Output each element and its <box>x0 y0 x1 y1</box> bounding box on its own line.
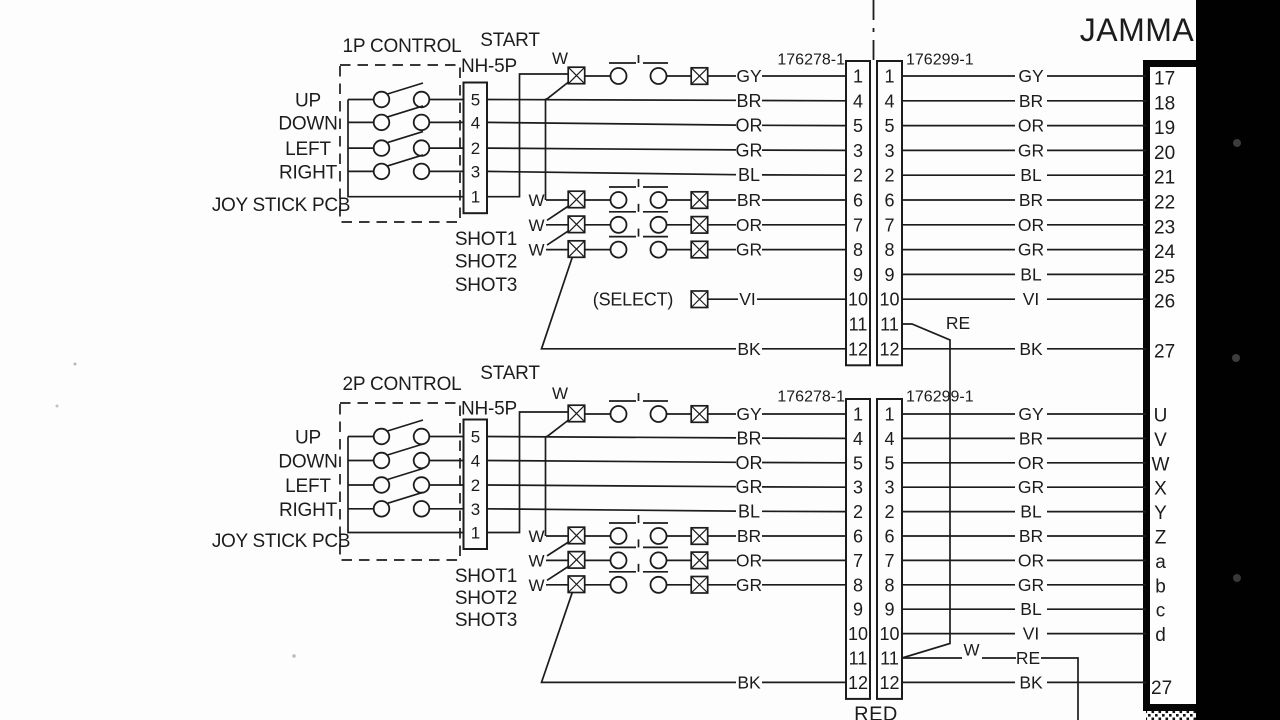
pushbutton SHOT2 (2P) with faston terminals <box>568 539 708 568</box>
svg-text:JOY STICK PCB: JOY STICK PCB <box>212 195 350 216</box>
svg-text:3: 3 <box>884 141 894 161</box>
svg-text:OR: OR <box>736 550 762 570</box>
svg-text:23: 23 <box>1154 217 1175 238</box>
svg-text:2: 2 <box>884 166 894 186</box>
svg-text:12: 12 <box>879 339 899 359</box>
wire GR row button to P-conn (2P) <box>708 584 736 586</box>
svg-text:Z: Z <box>1155 528 1167 549</box>
faint scan speck 3 <box>292 654 296 658</box>
svg-text:GR: GR <box>1018 575 1044 595</box>
wire OR row to JAMMA (row 2) <box>902 125 1015 127</box>
svg-text:c: c <box>1156 601 1166 622</box>
svg-text:5: 5 <box>853 116 863 136</box>
svg-text:176278-1: 176278-1 <box>777 389 845 406</box>
wire ground return SHOT3 to BK row (2P) <box>542 592 737 683</box>
svg-text:GR: GR <box>1018 240 1044 260</box>
svg-text:19: 19 <box>1154 118 1175 139</box>
wire W to terminal SHOT2 (1P) <box>546 224 569 226</box>
wire SELECT to P-conn pin10 / VI row (1P) <box>708 298 738 300</box>
wire BK row to JAMMA (row 11) <box>902 348 1015 350</box>
svg-text:W: W <box>528 241 544 260</box>
wire BL row to JAMMA (row 8) <box>902 608 1015 610</box>
JAMMA connector bottom key (stipple) <box>1146 711 1196 720</box>
connector R 176299-1 body <box>877 399 902 699</box>
connector NH-5P (1P) body <box>464 83 488 214</box>
svg-text:11: 11 <box>880 315 899 335</box>
svg-text:1: 1 <box>884 405 894 425</box>
svg-text:RE: RE <box>946 313 970 333</box>
svg-text:GR: GR <box>736 575 762 595</box>
switch RIGHT (2P) <box>348 492 429 516</box>
wire NH-5P pin3 / BL row to P-conn (2P) <box>487 509 736 511</box>
svg-text:4: 4 <box>471 113 480 132</box>
wire ground return SHOT3 to BK row (1P) <box>542 257 737 349</box>
svg-text:BL: BL <box>1020 599 1042 619</box>
wire OR row to JAMMA (row 6) <box>902 224 1015 226</box>
wire ground link SHOT2-SHOT3 (1P) <box>547 231 569 245</box>
wire NH-5P pin5 / BR row to P-conn (1P) <box>487 99 736 102</box>
svg-text:22: 22 <box>1154 193 1175 214</box>
connector R 176299-1 body <box>877 61 902 365</box>
svg-text:W: W <box>528 527 544 546</box>
wire switch LEFT to NH-5P (1P) <box>429 147 464 149</box>
svg-text:BL: BL <box>1020 264 1042 284</box>
wire switch DOWN to NH-5P (1P) <box>429 121 464 123</box>
wire VI row to JAMMA (row 9) <box>902 298 1015 300</box>
connector P 176278-1 pin numbers <box>848 405 868 693</box>
svg-text:GR: GR <box>736 140 763 160</box>
svg-text:START: START <box>480 30 540 51</box>
switch LEFT (2P) <box>348 469 429 493</box>
svg-text:25: 25 <box>1154 267 1175 288</box>
svg-text:7: 7 <box>853 551 863 571</box>
wire BR row to JAMMA (row 1) <box>902 100 1015 102</box>
svg-text:GY: GY <box>1018 66 1044 86</box>
switch UP (2P) <box>348 420 429 444</box>
pushbutton START (1P) with faston terminals <box>568 55 708 84</box>
svg-text:OR: OR <box>736 215 762 235</box>
2P joystick PCB enclosure (dashed box) <box>340 403 460 560</box>
wire W to terminal SHOT2 (2P) <box>546 559 569 561</box>
scan artifact dot 2 <box>1232 354 1240 362</box>
switch LEFT (1P) <box>348 132 429 156</box>
wire ground link SHOT1-SHOT2 (1P) <box>547 206 569 220</box>
svg-text:(SELECT): (SELECT) <box>593 290 673 310</box>
wire GY row button to P-conn (1P) <box>708 75 736 77</box>
svg-text:9: 9 <box>884 600 894 620</box>
svg-text:JOY STICK PCB: JOY STICK PCB <box>212 531 350 552</box>
wire RE link: upper pin11 to lower pin11 <box>902 324 950 658</box>
svg-text:10: 10 <box>848 624 868 644</box>
connector P 176278-1 body <box>846 399 870 699</box>
svg-text:2P CONTROL: 2P CONTROL <box>342 374 461 395</box>
svg-text:OR: OR <box>1018 116 1044 136</box>
svg-text:10: 10 <box>848 290 868 310</box>
svg-text:BK: BK <box>1019 339 1043 359</box>
svg-text:OR: OR <box>1018 215 1044 235</box>
svg-text:7: 7 <box>853 215 863 235</box>
wire NH-5P pin1 ground feed to START (2P) <box>487 412 569 533</box>
wire NH-5P pin2 / GR row to P-conn (2P) <box>487 485 736 487</box>
wire ground chain START to shots (2P) <box>546 420 569 536</box>
wire switch RIGHT to NH-5P (1P) <box>429 170 464 172</box>
svg-text:9: 9 <box>884 265 894 285</box>
connector NH-5P (2P) pin numbers <box>471 428 480 543</box>
svg-text:8: 8 <box>853 240 863 260</box>
svg-text:9: 9 <box>853 265 863 285</box>
svg-text:4: 4 <box>853 91 863 111</box>
wire BR row button to P-conn (1P) <box>708 199 736 201</box>
svg-text:20: 20 <box>1154 143 1175 164</box>
pushbutton SHOT3 (1P) with faston terminals <box>568 229 708 258</box>
svg-text:176278-1: 176278-1 <box>777 52 845 69</box>
wire BL row to JAMMA (row 8) <box>902 273 1015 275</box>
svg-text:VI: VI <box>1023 624 1040 644</box>
svg-text:SHOT3: SHOT3 <box>455 275 517 296</box>
wire W to terminal SHOT3 (2P) <box>546 584 569 586</box>
svg-text:9: 9 <box>853 600 863 620</box>
connector P 176278-1 body <box>846 61 870 365</box>
wire RE to drop corner <box>1041 658 1078 720</box>
wire NH-5P pin1 ground feed to START (1P) <box>487 74 569 197</box>
svg-text:11: 11 <box>880 649 899 669</box>
svg-text:GR: GR <box>1018 477 1044 497</box>
svg-text:BK: BK <box>737 339 761 359</box>
svg-text:5: 5 <box>471 428 480 447</box>
wire ground chain START to shots (1P) <box>546 82 569 200</box>
svg-text:2: 2 <box>884 502 894 522</box>
svg-text:2: 2 <box>853 502 863 522</box>
svg-text:W: W <box>528 191 544 210</box>
pushbutton SHOT2 (1P) with faston terminals <box>568 204 708 233</box>
faston terminal SELECT (1P) <box>691 291 708 308</box>
svg-text:SHOT2: SHOT2 <box>455 252 517 273</box>
svg-text:12: 12 <box>848 339 868 359</box>
wire NH-5P pin2 / GR row to P-conn (1P) <box>487 148 736 150</box>
svg-text:W: W <box>552 49 568 68</box>
wire switch LEFT to NH-5P (2P) <box>429 484 464 486</box>
wire VI row to JAMMA (row 9) <box>902 633 1015 635</box>
wire 1P joystick common bus <box>348 100 464 197</box>
wire GR row to JAMMA (row 7) <box>902 584 1015 586</box>
svg-text:4: 4 <box>884 429 894 449</box>
svg-text:6: 6 <box>853 527 863 547</box>
wire 2P pin11 W/RE to video ground drop <box>902 657 962 659</box>
svg-text:3: 3 <box>853 141 863 161</box>
svg-text:4: 4 <box>884 91 894 111</box>
svg-text:LEFT: LEFT <box>285 476 331 497</box>
svg-text:27: 27 <box>1154 341 1175 362</box>
wire GR row button to P-conn (1P) <box>708 249 736 251</box>
svg-text:SHOT2: SHOT2 <box>455 588 517 609</box>
wire GY row to JAMMA (row 0) <box>902 413 1015 415</box>
switch DOWN (1P) <box>348 106 429 130</box>
wire ground link SHOT2-SHOT3 (2P) <box>547 566 569 580</box>
wire W to terminal SHOT1 (2P) <box>546 535 569 537</box>
connector R 176299-1 pin numbers <box>879 405 899 693</box>
svg-text:U: U <box>1154 406 1168 427</box>
scan artifact dot 1 <box>1233 139 1241 147</box>
svg-text:8: 8 <box>884 575 894 595</box>
svg-text:1: 1 <box>853 67 863 87</box>
svg-text:X: X <box>1154 479 1167 500</box>
svg-text:5: 5 <box>884 453 894 473</box>
svg-text:JAMMA: JAMMA <box>1080 12 1195 48</box>
svg-text:8: 8 <box>853 575 863 595</box>
svg-text:1: 1 <box>884 67 894 87</box>
wire OR row to JAMMA (row 6) <box>902 559 1015 561</box>
svg-text:NH-5P: NH-5P <box>461 399 517 420</box>
svg-text:2: 2 <box>471 139 480 158</box>
svg-text:UP: UP <box>295 91 321 112</box>
wire NH-5P pin4 / OR row to P-conn (2P) <box>487 461 736 463</box>
svg-text:11: 11 <box>849 649 868 669</box>
svg-text:5: 5 <box>853 453 863 473</box>
svg-text:3: 3 <box>471 500 480 519</box>
svg-text:5: 5 <box>884 116 894 136</box>
wire GR row to JAMMA (row 3) <box>902 149 1015 151</box>
svg-text:GR: GR <box>1018 140 1044 160</box>
svg-text:BL: BL <box>738 502 760 522</box>
svg-text:BL: BL <box>1020 165 1042 185</box>
svg-text:W: W <box>528 551 544 570</box>
svg-text:VI: VI <box>739 289 756 309</box>
wire switch RIGHT to NH-5P (2P) <box>429 508 464 510</box>
svg-text:12: 12 <box>848 673 868 693</box>
wire BR row button to P-conn (2P) <box>708 535 736 537</box>
faint scan speck 1 <box>74 363 77 366</box>
wire BL row to JAMMA (row 4) <box>902 174 1015 176</box>
svg-text:BR: BR <box>736 91 761 111</box>
svg-text:BR: BR <box>1019 526 1043 546</box>
svg-text:BR: BR <box>1019 190 1043 210</box>
wire OR row button to P-conn (2P) <box>708 559 736 561</box>
wire OR row to JAMMA (row 2) <box>902 462 1015 464</box>
svg-text:1: 1 <box>853 405 863 425</box>
wire W to terminal SHOT3 (1P) <box>546 249 569 251</box>
wire GR row to JAMMA (row 7) <box>902 249 1015 251</box>
svg-text:1: 1 <box>471 188 480 207</box>
svg-text:7: 7 <box>884 215 894 235</box>
wire GY row to JAMMA (row 0) <box>902 75 1015 77</box>
svg-text:4: 4 <box>853 429 863 449</box>
wire GR row to JAMMA (row 3) <box>902 486 1015 488</box>
svg-text:VI: VI <box>1023 289 1040 309</box>
svg-text:DOWN: DOWN <box>278 452 337 473</box>
JAMMA edge connector frame <box>1143 60 1196 711</box>
svg-text:2: 2 <box>853 166 863 186</box>
svg-text:W: W <box>528 216 544 235</box>
svg-text:176299-1: 176299-1 <box>906 52 974 69</box>
svg-text:BR: BR <box>737 526 761 546</box>
svg-text:1: 1 <box>471 524 480 543</box>
wire BK row to P-conn pin12 (1P) <box>762 348 846 350</box>
svg-text:BL: BL <box>738 165 760 185</box>
svg-text:10: 10 <box>879 290 899 310</box>
wire BK row to JAMMA (row 11) <box>902 681 1015 683</box>
svg-text:176299-1: 176299-1 <box>906 389 974 406</box>
svg-text:7: 7 <box>884 551 894 571</box>
svg-text:26: 26 <box>1154 292 1175 313</box>
svg-text:17: 17 <box>1154 69 1175 90</box>
svg-text:12: 12 <box>879 673 899 693</box>
svg-text:RED: RED <box>854 704 898 720</box>
svg-text:8: 8 <box>884 240 894 260</box>
wire NH-5P pin3 / BL row to P-conn (1P) <box>487 171 736 174</box>
svg-text:OR: OR <box>1018 453 1044 473</box>
wire BK row to P-conn pin12 (2P) <box>762 681 846 683</box>
svg-text:10: 10 <box>879 624 899 644</box>
svg-text:GR: GR <box>736 240 762 260</box>
svg-text:21: 21 <box>1154 168 1175 189</box>
svg-text:24: 24 <box>1154 242 1176 263</box>
svg-text:BL: BL <box>1020 502 1042 522</box>
wire NH-5P pin5 / BR row to P-conn (2P) <box>487 437 736 438</box>
wire BR row to JAMMA (row 5) <box>902 535 1015 537</box>
wire switch UP to NH-5P (1P) <box>429 99 464 101</box>
svg-text:W: W <box>528 576 544 595</box>
svg-text:SHOT1: SHOT1 <box>455 566 517 587</box>
svg-text:DOWN: DOWN <box>278 113 337 134</box>
svg-text:6: 6 <box>884 191 894 211</box>
svg-text:3: 3 <box>853 478 863 498</box>
svg-text:BR: BR <box>1019 428 1043 448</box>
pushbutton START (2P) with faston terminals <box>568 393 708 422</box>
svg-text:RE: RE <box>1016 648 1040 668</box>
wire BR row to JAMMA (row 1) <box>902 437 1015 439</box>
svg-text:OR: OR <box>1018 550 1044 570</box>
connector R 176299-1 pin numbers <box>879 67 899 360</box>
svg-text:6: 6 <box>853 191 863 211</box>
svg-text:OR: OR <box>736 116 763 136</box>
svg-text:6: 6 <box>884 527 894 547</box>
wire switch UP to NH-5P (2P) <box>429 436 464 438</box>
svg-text:BK: BK <box>1019 672 1043 692</box>
svg-text:SHOT1: SHOT1 <box>455 229 517 250</box>
JAMMA pin letters U-d and 27 (parts side) <box>1151 406 1172 699</box>
switch DOWN (2P) <box>348 444 429 468</box>
svg-text:START: START <box>480 363 540 384</box>
faint scan speck 2 <box>56 405 59 408</box>
svg-text:d: d <box>1155 625 1166 646</box>
switch RIGHT (1P) <box>348 155 429 179</box>
svg-text:3: 3 <box>471 162 480 181</box>
pushbutton SHOT1 (1P) with faston terminals <box>568 179 708 208</box>
wire BL row to JAMMA (row 4) <box>902 511 1015 513</box>
svg-text:NH-5P: NH-5P <box>461 56 517 77</box>
svg-text:UP: UP <box>295 428 321 449</box>
svg-text:W: W <box>552 384 568 403</box>
svg-text:2: 2 <box>471 476 480 495</box>
svg-text:RIGHT: RIGHT <box>279 500 338 521</box>
svg-text:GY: GY <box>1018 404 1044 424</box>
svg-text:V: V <box>1154 430 1167 451</box>
svg-text:LEFT: LEFT <box>285 139 331 160</box>
connector NH-5P (1P) pin numbers <box>471 91 480 207</box>
svg-text:RIGHT: RIGHT <box>279 162 338 183</box>
svg-text:27: 27 <box>1151 678 1172 699</box>
harness fold line (dashed, between connectors) <box>873 0 875 61</box>
svg-text:W: W <box>963 641 979 660</box>
wire NH-5P pin4 / OR row to P-conn (1P) <box>487 122 736 125</box>
1P joystick PCB enclosure (dashed box) <box>340 65 460 222</box>
wire GY row button to P-conn (2P) <box>708 413 736 415</box>
svg-text:OR: OR <box>736 453 763 473</box>
JAMMA pin numbers 17-27 (solder side) <box>1154 69 1176 363</box>
svg-text:BR: BR <box>737 190 761 210</box>
svg-text:BR: BR <box>1019 91 1043 111</box>
svg-text:4: 4 <box>471 452 480 471</box>
svg-text:Y: Y <box>1154 503 1167 524</box>
scan artifact dot 3 <box>1233 574 1241 582</box>
svg-text:BK: BK <box>737 672 761 692</box>
wire OR row button to P-conn (1P) <box>708 224 736 226</box>
svg-text:GY: GY <box>736 404 762 424</box>
wire BR row to JAMMA (row 5) <box>902 199 1015 201</box>
pushbutton SHOT3 (2P) with faston terminals <box>568 564 708 593</box>
svg-text:BR: BR <box>736 428 761 448</box>
wire W to RE label segment <box>982 657 1016 659</box>
svg-text:W: W <box>1152 454 1170 475</box>
pushbutton SHOT1 (2P) with faston terminals <box>568 515 708 544</box>
wire ground link SHOT1-SHOT2 (2P) <box>547 542 569 556</box>
svg-text:GY: GY <box>736 66 762 86</box>
svg-text:SHOT3: SHOT3 <box>455 610 517 631</box>
svg-text:1P CONTROL: 1P CONTROL <box>342 36 461 57</box>
connector P 176278-1 pin numbers <box>848 67 868 360</box>
switch UP (1P) <box>348 83 429 107</box>
wire W to terminal SHOT1 (1P) <box>546 199 569 201</box>
svg-text:11: 11 <box>849 315 868 335</box>
svg-text:18: 18 <box>1154 93 1175 114</box>
svg-text:GR: GR <box>736 477 763 497</box>
svg-text:3: 3 <box>884 478 894 498</box>
wire switch DOWN to NH-5P (2P) <box>429 460 464 462</box>
svg-text:b: b <box>1155 576 1166 597</box>
wire 2P joystick common bus <box>348 437 464 533</box>
svg-text:a: a <box>1155 552 1166 573</box>
connector NH-5P (2P) body <box>464 420 488 550</box>
scan margin black area (right page edge) <box>1196 0 1280 720</box>
svg-text:5: 5 <box>471 91 480 110</box>
